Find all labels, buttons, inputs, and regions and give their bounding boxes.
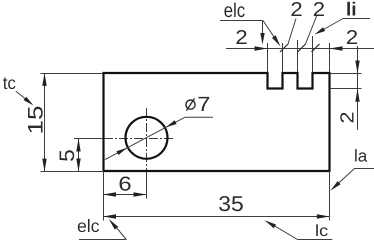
chain extension line notch1 right [282,43,284,72]
extension line hole center left [74,138,103,140]
la leader diagonal [334,169,355,188]
extension line top-left [41,73,104,75]
label li [347,2,355,16]
label 2 notch2 width [314,2,324,16]
leader to slash 2 [306,15,318,44]
label diameter symbol [186,100,195,109]
elc top leader vertical arrow [262,21,264,37]
label 2 gap [291,2,301,16]
tc leader [16,91,28,101]
dimension line 5 [78,139,80,172]
label 15 [28,107,43,133]
depth extension line top [330,73,362,75]
la leader underline [355,168,374,170]
chain arrow left [255,46,268,50]
lc leader diagonal [269,223,298,240]
chain extension line notch1 left [267,43,269,72]
depth dimension line 2 [357,46,359,130]
label elc bottom [78,219,99,232]
label lc [316,224,327,236]
hole leader line [105,117,213,159]
label la [355,149,367,161]
chain arrow right [330,46,343,50]
extension line right edge down [329,171,331,221]
lc leader underline [298,239,333,241]
li leader diagonal [320,19,343,32]
label 2 notch1 width [236,30,246,44]
top chain dimension line [226,48,374,50]
chain extension line notch2 right [312,36,314,72]
hole vertical centerline [146,108,148,171]
elc bottom leader diagonal [113,224,126,240]
li leader underline [343,18,370,20]
label 7 [199,97,210,111]
depth extension line bottom [330,88,362,90]
elc top leader underline [220,20,263,22]
hole leader arrow lower-left [116,148,127,155]
dimension line 6 [104,194,147,196]
label elc top [224,3,244,18]
extension line left edge down [103,171,105,221]
label 6 [120,177,131,191]
label 5 [60,150,75,161]
extension line bottom-left [41,171,104,173]
leader to slash 1 [288,19,296,45]
hole leader arrow upper-right [166,120,177,127]
oblique slash 2 [298,44,306,52]
chain extension line right edge up [329,43,331,72]
hole horizontal centerline [74,138,104,140]
label tc [3,77,15,89]
dimension line 35 [104,216,330,218]
dimension line 15 [44,74,46,172]
oblique slash 3 [312,44,320,52]
oblique slash 1 [280,44,288,52]
label 2 right [347,30,357,44]
elc bottom leader underline [79,239,126,241]
chain extension line notch2 left [297,40,299,72]
part outline with two top notches [104,73,330,171]
hole circle [126,117,168,159]
elc top leader diagonal arrow [263,21,276,40]
label 2 depth [340,113,353,123]
label 35 [219,196,243,211]
